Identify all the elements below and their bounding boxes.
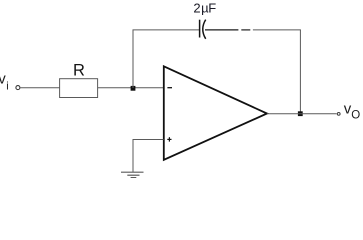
svg-text:R: R (73, 62, 85, 80)
capacitor C1 left plate (199, 20, 201, 38)
wire noninverting input to ground (133, 140, 164, 172)
node vo terminal (337, 113, 340, 116)
wire capacitor to right segment 1 (205, 29, 238, 31)
svg-text:2: 2 (193, 1, 200, 16)
wire feedback vertical right (299, 30, 301, 114)
op-amp pin plus marker (167, 137, 171, 141)
wire vi terminal to resistor (20, 87, 59, 89)
label vi (0, 70, 9, 92)
node vi terminal (16, 86, 20, 90)
svg-text:i: i (6, 81, 8, 93)
svg-text:F: F (208, 1, 216, 16)
label R (73, 62, 85, 80)
svg-text:O: O (351, 109, 360, 121)
wire resistor to inverting input (98, 87, 164, 89)
wire segment 3 to top right corner (253, 29, 301, 31)
wire feedback top left to capacitor (133, 29, 200, 31)
wire feedback vertical left (132, 30, 134, 88)
label vo (344, 100, 361, 121)
node B junction at output (298, 111, 303, 116)
op-amp U1 triangle (164, 66, 267, 160)
resistor R (60, 79, 98, 98)
wire segment 2 dash (241, 29, 250, 31)
capacitor C1 right curved plate (203, 20, 206, 39)
op-amp pin minus marker (167, 87, 172, 89)
wire op-amp output to vo terminal (267, 113, 337, 115)
ground symbol (121, 172, 144, 177)
node A junction at inverting input (131, 86, 136, 91)
label 2uF value of C1 (193, 1, 216, 16)
